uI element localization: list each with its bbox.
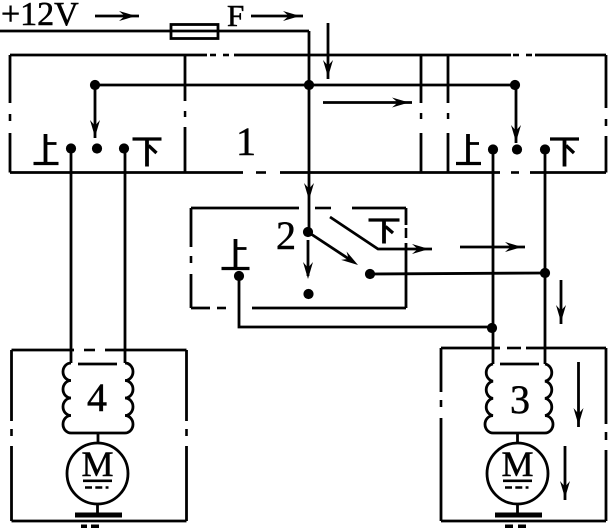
coil 4 (63, 363, 133, 444)
current arrow inside box 3 upper (574, 362, 584, 427)
wire fuse down to switch 2 common (308, 31, 311, 232)
svg-text:4: 4 (87, 375, 107, 420)
svg-text:2: 2 (276, 213, 296, 258)
label xia box2 (369, 220, 400, 244)
left contact up (66, 143, 76, 153)
motor M right (487, 443, 548, 504)
wire lever contact to coil3 right wire (370, 273, 545, 274)
svg-text:3: 3 (510, 377, 530, 422)
wire left down-contact to coil 4 (124, 149, 127, 364)
motor M left (67, 443, 128, 504)
current arrow inside box 1 (323, 98, 412, 108)
arrow after +12V (95, 11, 139, 21)
label shang left (34, 134, 59, 164)
fuse F (171, 25, 218, 39)
wire right down-contact to coil 3 (544, 150, 547, 365)
junction coil3 left wire (487, 323, 497, 333)
arrow after fuse (251, 11, 303, 21)
contact shang box2 (234, 271, 244, 281)
arrow node to right common contact (511, 89, 521, 143)
left contact down (119, 143, 129, 153)
right contact down (540, 144, 550, 154)
lower contact dot (303, 289, 313, 299)
wire +12V bus (0, 30, 309, 33)
label shang box2 (222, 239, 250, 269)
arrow to lower contact of switch 2 (303, 240, 313, 279)
ground left (75, 504, 122, 518)
svg-text:M: M (81, 444, 113, 484)
lever target contact dot (365, 269, 375, 279)
right contact up (488, 144, 498, 154)
label shang right (456, 134, 481, 164)
current arrow down right of junction (556, 280, 566, 324)
wire box2 shang contact to coil3 left wire (239, 276, 492, 327)
current arrow entering box 1 (323, 23, 333, 79)
wire node bus inside box 1 (95, 84, 515, 87)
label xia right (550, 139, 579, 167)
svg-text:M: M (501, 444, 533, 484)
right contact common (512, 144, 522, 154)
wire right up-contact to coil 3 (492, 150, 495, 365)
node left (90, 80, 100, 90)
ground right (495, 504, 542, 518)
svg-text:+12V: +12V (1, 0, 79, 33)
current arrow toward coil 3 down-wire (460, 242, 525, 252)
box 1 section divider mid-right b (445, 55, 451, 173)
wire left up-contact to coil 4 (70, 149, 73, 364)
current arrow inside box 3 lower (560, 446, 570, 500)
throw line to xia position with arrow (330, 217, 432, 254)
left contact common (92, 143, 102, 153)
switch box 2 border (188, 205, 409, 311)
box 1 section divider mid-right a (418, 55, 424, 173)
switch 2 common node (303, 227, 313, 237)
bottom page marks right (505, 525, 526, 528)
relay box 3 border (438, 345, 609, 521)
svg-text:F: F (227, 0, 244, 33)
relay box 4 border (9, 347, 190, 521)
svg-text:1: 1 (236, 119, 256, 164)
node right (510, 80, 520, 90)
junction coil3 right wire (540, 268, 550, 278)
arrow node to left common contact (90, 89, 100, 138)
switch unit box 1 border (7, 52, 609, 176)
junction on bus (304, 80, 314, 90)
label xia left (133, 139, 162, 167)
box 1 section divider left (182, 55, 188, 173)
lever arrow of switch 2 (308, 232, 361, 269)
coil 3 (485, 364, 553, 444)
current arrowhead on drop wire (304, 183, 314, 200)
bottom page marks left (81, 525, 99, 528)
